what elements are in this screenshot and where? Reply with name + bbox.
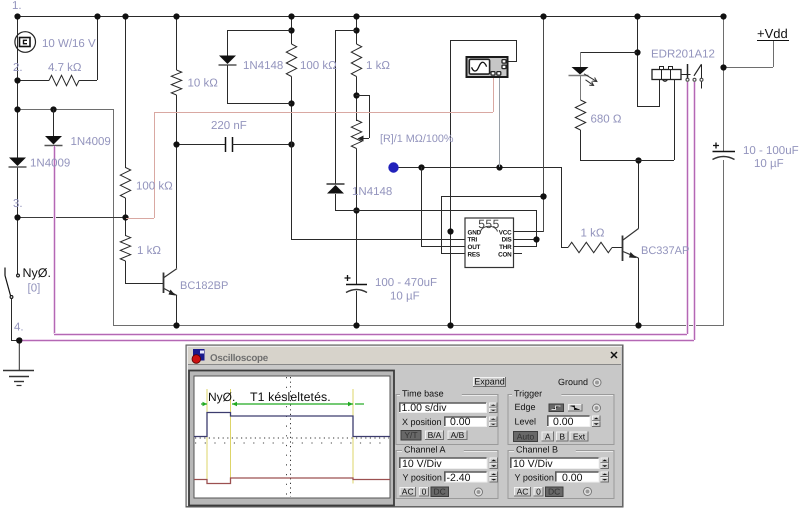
svg-text:Auto: Auto <box>517 432 535 442</box>
svg-text:Oscilloscope: Oscilloscope <box>210 353 269 364</box>
svg-text:1 kΩ: 1 kΩ <box>581 228 605 240</box>
svg-text:NyØ.: NyØ. <box>208 390 235 404</box>
svg-text:T1 késleltetés.: T1 késleltetés. <box>250 390 331 404</box>
svg-text:220 nF: 220 nF <box>211 120 247 132</box>
svg-text:100 kΩ: 100 kΩ <box>300 60 337 72</box>
svg-text:0.00: 0.00 <box>553 416 574 428</box>
svg-text:0: 0 <box>536 487 541 497</box>
svg-text:0.00: 0.00 <box>562 472 583 484</box>
svg-text:THR: THR <box>499 244 512 251</box>
svg-text:Channel B: Channel B <box>516 445 558 455</box>
svg-text:10 kΩ: 10 kΩ <box>188 78 219 90</box>
svg-text:3.: 3. <box>13 198 23 210</box>
svg-text:Ext: Ext <box>573 432 586 442</box>
svg-text:TRI: TRI <box>468 237 478 244</box>
svg-text:-2.40: -2.40 <box>447 472 471 484</box>
svg-text:[R]/1 MΩ/100%: [R]/1 MΩ/100% <box>380 133 454 145</box>
svg-text:Channel A: Channel A <box>404 445 446 455</box>
svg-text:Edge: Edge <box>515 402 536 412</box>
svg-text:+: + <box>713 139 720 153</box>
svg-text:Y position: Y position <box>515 473 554 483</box>
svg-text:BC182BP: BC182BP <box>180 280 228 292</box>
svg-text:RES: RES <box>468 251 480 258</box>
svg-text:DC: DC <box>548 487 560 497</box>
svg-text:EDR201A12: EDR201A12 <box>651 49 715 61</box>
svg-text:GND: GND <box>468 229 482 236</box>
svg-text:1N4009: 1N4009 <box>30 158 70 170</box>
svg-text:[0]: [0] <box>28 283 41 295</box>
svg-text:10 V/Div: 10 V/Div <box>402 458 442 470</box>
svg-text:Trigger: Trigger <box>514 389 542 399</box>
svg-text:0: 0 <box>422 487 427 497</box>
svg-text:Ground: Ground <box>558 377 588 387</box>
svg-text:✕: ✕ <box>609 350 618 362</box>
svg-text:AC: AC <box>517 487 529 497</box>
svg-text:680 Ω: 680 Ω <box>591 114 622 126</box>
svg-text:10 µF: 10 µF <box>754 158 784 170</box>
svg-text:Time base: Time base <box>402 389 444 399</box>
svg-text:Expand: Expand <box>474 377 505 387</box>
svg-text:OUT: OUT <box>468 244 481 251</box>
svg-text:1 kΩ: 1 kΩ <box>137 245 161 257</box>
svg-text:VCC: VCC <box>499 229 512 236</box>
svg-text:10 - 100uF: 10 - 100uF <box>743 145 799 157</box>
svg-text:10 W/16 V: 10 W/16 V <box>42 38 96 50</box>
svg-text:10 µF: 10 µF <box>390 291 420 303</box>
svg-text:4.: 4. <box>14 322 24 334</box>
svg-text:Y/T: Y/T <box>404 430 417 440</box>
svg-text:1N4009: 1N4009 <box>71 136 111 148</box>
svg-text:AC: AC <box>402 487 414 497</box>
svg-text:1.00 s/div: 1.00 s/div <box>402 402 448 414</box>
svg-text:Y position: Y position <box>403 473 442 483</box>
svg-text:NyØ.: NyØ. <box>23 266 51 280</box>
svg-text:+: + <box>344 271 351 285</box>
svg-text:4.7 kΩ: 4.7 kΩ <box>48 62 82 74</box>
svg-text:10 V/Div: 10 V/Div <box>513 458 553 470</box>
svg-text:+Vdd: +Vdd <box>757 26 788 41</box>
svg-text:CON: CON <box>498 251 512 258</box>
svg-text:1N4148: 1N4148 <box>243 60 283 72</box>
svg-text:100 - 470uF: 100 - 470uF <box>375 277 437 289</box>
svg-text:A/B: A/B <box>451 430 465 440</box>
svg-text:Level: Level <box>515 417 537 427</box>
svg-text:B: B <box>559 432 565 442</box>
svg-text:DIS: DIS <box>502 237 512 244</box>
svg-text:BC337AP: BC337AP <box>641 245 689 257</box>
svg-text:2.: 2. <box>13 62 23 74</box>
svg-text:1 kΩ: 1 kΩ <box>366 60 390 72</box>
svg-text:A: A <box>545 432 551 442</box>
svg-text:X position: X position <box>402 417 442 427</box>
svg-text:B/A: B/A <box>428 430 442 440</box>
svg-text:1.: 1. <box>12 0 22 12</box>
svg-text:1N4148: 1N4148 <box>352 186 392 198</box>
svg-text:DC: DC <box>434 487 446 497</box>
svg-text:100 kΩ: 100 kΩ <box>136 181 173 193</box>
svg-text:0.00: 0.00 <box>450 416 471 428</box>
